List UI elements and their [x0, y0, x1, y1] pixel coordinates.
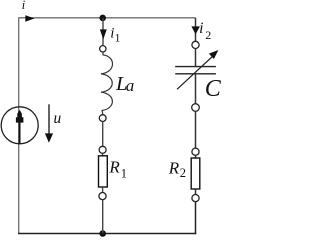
wire top rail	[19, 17, 196, 19]
svg-text:i: i	[22, 0, 26, 12]
terminal circle (below R1)	[99, 193, 106, 200]
wire stub to capacitor	[195, 49, 197, 67]
terminal circle (below C)	[192, 104, 200, 112]
wire stub	[102, 187, 104, 193]
wire middle branch top drop	[102, 18, 104, 46]
svg-text:C: C	[205, 76, 222, 102]
wire between La and R1	[102, 122, 104, 147]
wire to bottom rail	[195, 202, 197, 235]
svg-text:2: 2	[205, 28, 211, 42]
svg-text:i: i	[199, 20, 203, 37]
terminal circle (above C)	[192, 41, 199, 48]
svg-text:R: R	[168, 158, 180, 177]
svg-text:1: 1	[121, 166, 127, 180]
current source arrow	[19, 121, 21, 144]
resistor R1	[99, 156, 108, 187]
terminal circle (below La)	[99, 115, 106, 122]
terminal circle (above R2)	[192, 148, 199, 155]
node bottom junction	[99, 230, 106, 237]
arrow i2	[191, 26, 200, 34]
wire to bottom junction	[102, 200, 104, 234]
svg-text:a: a	[126, 76, 135, 95]
inductor La	[101, 52, 113, 115]
wire stub	[195, 155, 197, 158]
svg-text:2: 2	[180, 166, 186, 180]
capacitor C bottom plate	[175, 73, 216, 75]
wire stub	[102, 153, 104, 156]
svg-text:u: u	[54, 110, 62, 127]
wire stub	[195, 189, 197, 195]
terminal circle (above La)	[100, 46, 106, 52]
terminal circle (above R1)	[99, 146, 106, 153]
wire left rail	[18, 17, 20, 233]
arrow u	[48, 104, 50, 135]
resistor R2	[191, 158, 200, 189]
wire between C and R2	[195, 111, 197, 148]
arrow i (on top wire)	[25, 15, 34, 22]
svg-text:R: R	[108, 158, 120, 177]
wire bottom rail	[18, 233, 196, 235]
wire right branch top drop	[195, 18, 197, 42]
arrow i1	[100, 29, 107, 39]
node top junction	[99, 15, 106, 22]
terminal circle (below R2)	[192, 195, 199, 202]
current source U1 circle	[1, 107, 38, 144]
capacitor C top plate	[175, 66, 216, 68]
svg-text:1: 1	[115, 32, 121, 44]
wire stub below capacitor	[195, 75, 197, 104]
variable capacitor arrow	[177, 56, 214, 90]
